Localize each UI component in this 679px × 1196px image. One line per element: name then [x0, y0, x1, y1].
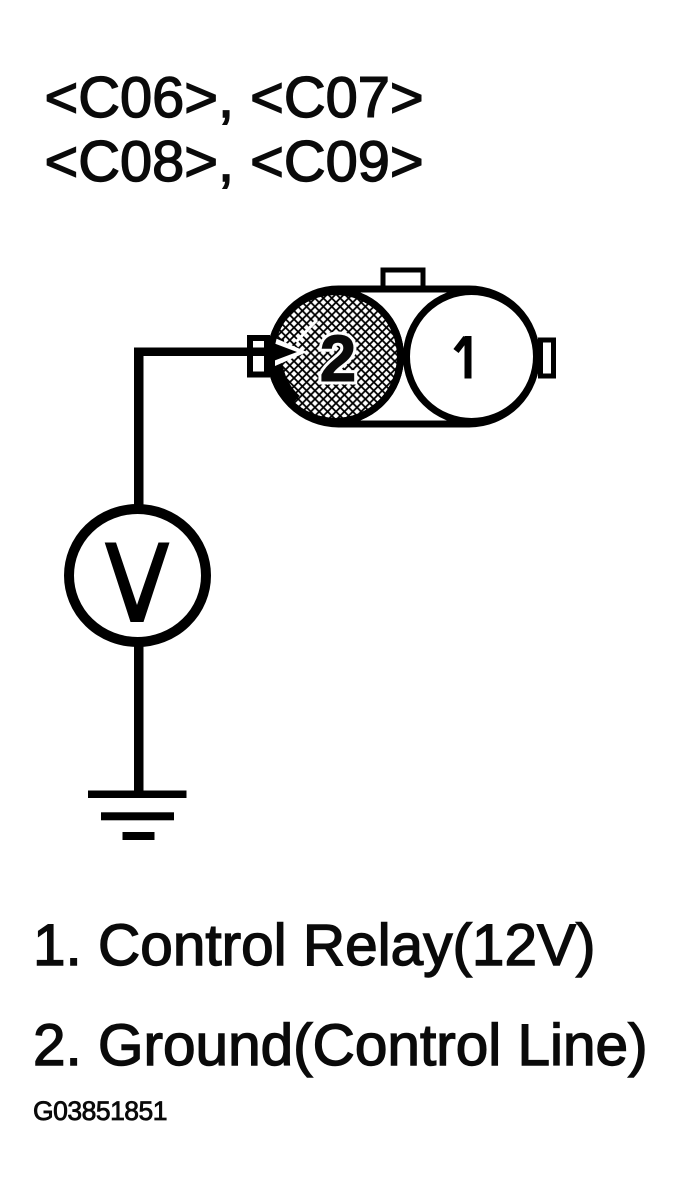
- left terminal tab on connector: [250, 338, 267, 375]
- svg-text:2: 2: [320, 321, 357, 395]
- svg-text:G03851851: G03851851: [33, 1096, 167, 1126]
- ground symbol bar 3: [123, 832, 155, 840]
- pin 1 cavity circle: [407, 292, 537, 422]
- wire arrowhead into pin 2: [268, 341, 297, 363]
- svg-text:2. Ground(Control Line): 2. Ground(Control Line): [33, 1013, 648, 1078]
- wire: vertical lead down to voltmeter: [134, 348, 144, 509]
- pin 2 cavity circle (hatched): [271, 292, 401, 422]
- svg-text:<C06>, <C07>: <C06>, <C07>: [45, 66, 424, 130]
- scan artifact: white streak in hatch: [296, 320, 317, 342]
- top mounting tab of connector: [383, 270, 423, 292]
- right mounting tab of connector: [541, 340, 554, 376]
- svg-text:<C08>, <C09>: <C08>, <C09>: [45, 130, 424, 194]
- voltmeter V glyph: [105, 543, 170, 623]
- pin 2 rim redraw over halo: [271, 292, 401, 422]
- wire: horizontal lead from corner to connector: [134, 348, 278, 357]
- wire arrowhead halo into pin 2: [275, 338, 307, 366]
- ground symbol bar 2: [101, 812, 174, 820]
- scan artifact: heavy rim lower-left of pin 2: [276, 338, 296, 400]
- pin 1 numeral: [465, 336, 472, 379]
- voltmeter V1 circle: [69, 509, 206, 642]
- svg-text:1. Control Relay(12V): 1. Control Relay(12V): [33, 913, 596, 978]
- wire: vertical lead from voltmeter to ground: [134, 644, 144, 792]
- ground symbol bar 1: [88, 791, 187, 799]
- connector body (stadium outline): [271, 289, 537, 424]
